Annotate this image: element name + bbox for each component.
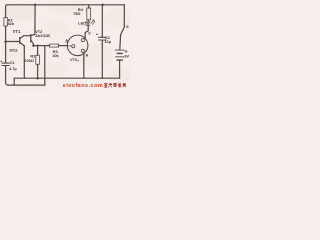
watermark chinese characters (drawn) <box>104 83 126 87</box>
node VT2 emitter / top rail dot <box>34 4 37 7</box>
diode LED symbol <box>86 22 90 25</box>
battery bottom lead to ground rail <box>119 61 121 78</box>
svg-text:75Ω: 75Ω <box>73 11 80 16</box>
transistor VT2 package circle <box>67 35 88 56</box>
wire b pin stub <box>67 45 71 47</box>
capacitor C1 plates <box>2 62 9 64</box>
svg-text:100Ω: 100Ω <box>24 58 34 63</box>
svg-text:LED: LED <box>78 21 86 26</box>
capacitor C2 bottom lead <box>101 40 103 78</box>
transistor VT2 symbol <box>30 35 32 42</box>
wire ground left U-link down <box>13 78 15 85</box>
svg-text:3V: 3V <box>124 53 129 58</box>
wire collector node to R3 <box>34 45 50 47</box>
wire top-left corner down to R1 <box>6 5 7 18</box>
wire R1 bottom to base node <box>5 26 7 41</box>
wire c pin stub <box>84 37 86 40</box>
capacitor C1 bottom lead with curve to lower ground <box>6 66 9 85</box>
wire R2 bottom lead to ground rail <box>37 64 39 78</box>
text labels <box>0 7 129 71</box>
capacitor C2 top lead <box>101 5 103 37</box>
node R2 ground dot <box>36 77 39 80</box>
wire vertical link R3-node to ground rail <box>44 46 46 86</box>
battery G plates <box>115 49 124 51</box>
svg-text:82k: 82k <box>8 21 15 26</box>
capacitor C2 plates <box>99 36 106 38</box>
wire VT1 emitter down to ground rail <box>23 46 25 78</box>
switch S blade <box>121 26 125 34</box>
wire R2 top lead <box>37 46 39 56</box>
resistor R3 body <box>50 44 59 47</box>
wire R4 top lead <box>88 5 90 8</box>
wire lower ground segment <box>8 84 44 86</box>
scan mottling <box>2 1 132 91</box>
svg-text:22µ: 22µ <box>105 39 112 44</box>
pin b of package <box>72 45 75 48</box>
wire R4 bottom to LED <box>87 20 89 22</box>
wire VT1 collector to VT2 base <box>24 35 31 37</box>
svg-text:10k: 10k <box>52 53 59 58</box>
svg-text:b: b <box>65 39 68 44</box>
resistor R2 body <box>36 55 40 64</box>
wire VT2 emitter up to top rail <box>34 5 36 35</box>
pin e of package <box>81 49 84 52</box>
wire base node to VT1 base <box>6 41 20 43</box>
transistor VT1 symbol <box>19 38 21 44</box>
resistor R1 body <box>4 18 7 27</box>
svg-text:VT2: VT2 <box>70 57 78 62</box>
wire switch to battery <box>119 35 122 50</box>
wire R3 right lead to transistor circle b pin <box>59 45 67 47</box>
node C2 top rail dot <box>101 4 104 7</box>
svg-text:3AX31B: 3AX31B <box>35 33 50 38</box>
wire e pin stub <box>82 53 85 55</box>
node VT2 collector dot <box>32 44 35 47</box>
node base junction dot <box>4 40 7 43</box>
resistor R4 body <box>87 8 91 20</box>
wire top-right corner <box>123 5 125 26</box>
LED emission arrows <box>91 19 93 23</box>
wire e pin down to ground rail <box>83 54 85 78</box>
svg-text:9011: 9011 <box>9 47 18 52</box>
wire top rail +V <box>7 4 124 6</box>
watermark elecfans.com <box>63 83 126 89</box>
svg-text:VT1: VT1 <box>13 29 21 34</box>
svg-text:S: S <box>126 24 129 29</box>
capacitor C1 top lead <box>5 42 7 63</box>
node R2 top junction dot <box>36 44 38 46</box>
svg-text:elecfans.com: elecfans.com <box>63 83 103 89</box>
svg-text:C1: C1 <box>10 60 16 65</box>
wire ground rail <box>14 77 119 79</box>
svg-text:4.7µ: 4.7µ <box>9 66 17 71</box>
wire LED cathode down to c pin <box>85 25 88 38</box>
pin c of package <box>81 39 84 42</box>
